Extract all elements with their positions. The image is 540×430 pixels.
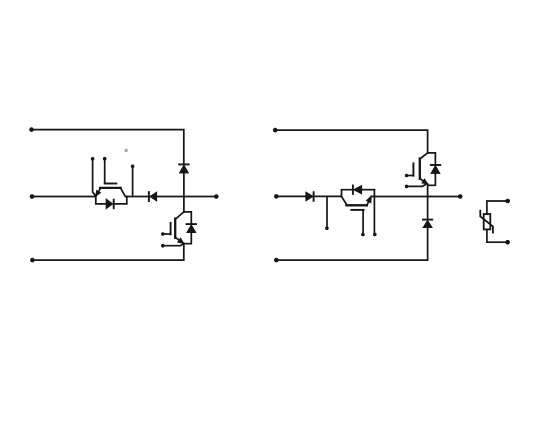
diode D7 (antiparallel diode of Q4, cathode up) — [428, 153, 441, 185]
thermistor R1 slash — [480, 211, 493, 233]
wire middle rail right segment — [125, 196, 216, 198]
pin dot G2 (gate of Q2) — [161, 232, 165, 236]
diode D1 (antiparallel diode of Q1, cathode right) — [96, 196, 127, 208]
wire emitter of Q2 to bottom rail — [32, 243, 183, 260]
pin dot C3 (collector of Q3) — [325, 226, 329, 230]
pin dot E4aux (aux emitter of Q4) — [405, 185, 409, 189]
terminal dot T4 (left module, middle rail right) — [214, 194, 219, 199]
pin dot E1 (emitter of Q1) — [91, 157, 95, 161]
terminal dot T1 (left module, top rail) — [29, 127, 34, 132]
terminal dot T6 (right module, middle rail left) — [274, 194, 279, 199]
pin dot G4 (gate of Q4) — [405, 174, 409, 178]
transistor Q1 (horizontal IGBT of left module) — [96, 159, 125, 197]
wire pin C3 of Q3 — [326, 196, 328, 228]
transistor Q2 (lower IGBT of left module) — [163, 212, 184, 244]
diode D5 (series diode on middle rail, cathode right) — [306, 192, 314, 201]
diode D6 (antiparallel diode of Q3, cathode left) — [342, 186, 375, 197]
wire top rail right module — [275, 130, 427, 153]
diode D3 (series diode on upper branch, cathode up) — [179, 164, 188, 173]
transistor Q4 (upper IGBT of right module) — [407, 153, 428, 184]
wire aux emitter pin of Q3 — [373, 190, 375, 235]
terminal dot T2 (left module, middle rail) — [30, 194, 35, 199]
wire branch vertical right module — [427, 184, 429, 219]
wire middle rail left segment — [32, 196, 96, 198]
terminal dot T3 (left module, bottom rail) — [30, 258, 35, 263]
wire pin C1 of Q1 — [132, 166, 134, 196]
pin dot E3aux (aux emitter of Q3) — [373, 233, 377, 237]
wire aux emitter of Q4 — [407, 184, 427, 187]
diode D8 (series diode on lower branch, cathode up) — [423, 220, 432, 228]
terminal dot T5 (right module, top rail) — [273, 128, 278, 133]
speck artifact — [125, 149, 128, 152]
pin dot C1 (collector of Q1) — [131, 165, 135, 169]
wire thermistor top lead — [487, 201, 508, 214]
pin dot G1 (gate of Q1) — [103, 157, 107, 161]
pin dot E2aux (aux emitter of Q2) — [161, 244, 165, 248]
diode D2 (series diode on middle rail, cathode left) — [149, 192, 157, 201]
wire branch vertical through middle rail crossing — [183, 173, 185, 212]
terminal dot T10 (thermistor bottom) — [505, 240, 510, 245]
wire middle rail left segment right module — [276, 195, 341, 197]
thermistor R1 body — [484, 214, 491, 229]
wire middle rail right segment right module — [371, 196, 460, 198]
terminal dot T8 (right module, middle rail right) — [458, 194, 463, 199]
wire aux emitter of Q2 — [163, 244, 184, 246]
wire thermistor bottom lead — [487, 229, 508, 242]
wire to bottom rail right module — [276, 228, 427, 261]
diode D4 (antiparallel diode of Q2, cathode up) — [184, 212, 196, 244]
transistor Q3 (horizontal IGBT of right module) — [342, 196, 372, 234]
wire top rail left module — [32, 130, 184, 164]
pin dot G3 (gate of Q3) — [361, 233, 365, 237]
terminal dot T7 (right module, bottom rail) — [274, 258, 279, 263]
terminal dot T9 (thermistor top) — [505, 199, 510, 204]
wire pin E1 of Q1 — [93, 159, 96, 196]
